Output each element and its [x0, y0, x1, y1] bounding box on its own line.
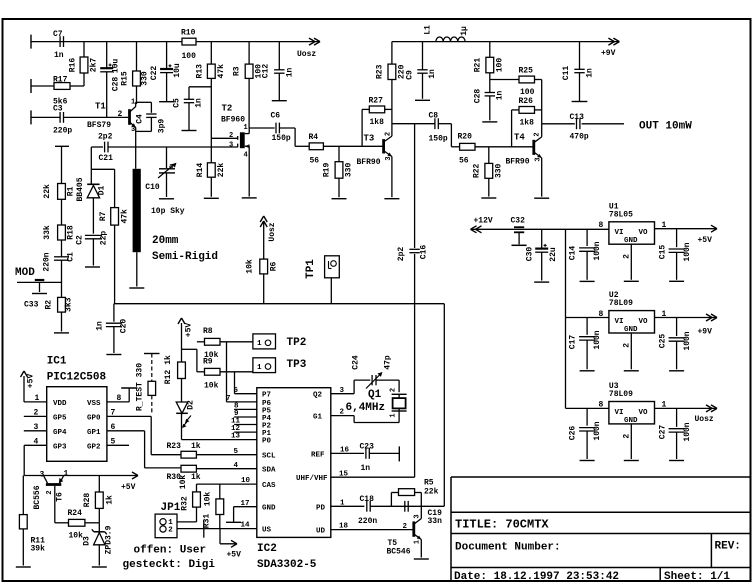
capacitor C15 — [669, 249, 685, 252]
svg-text:T3: T3 — [364, 134, 375, 144]
svg-text:MOD: MOD — [15, 267, 35, 279]
svg-text:100n: 100n — [593, 421, 602, 440]
wire C17 to ground — [586, 340, 588, 369]
ground T2 source — [242, 197, 257, 199]
wire C10 to ground — [136, 252, 138, 286]
capacitor C5 — [184, 99, 194, 102]
ground R2 — [54, 332, 69, 334]
svg-text:2: 2 — [118, 110, 123, 119]
wire IC1 pin1 — [24, 401, 47, 403]
wire R30 to SDA — [196, 468, 256, 470]
svg-text:22p: 22p — [100, 231, 109, 246]
wire R27 left — [362, 109, 369, 146]
svg-text:VSS: VSS — [87, 400, 101, 408]
svg-text:100n: 100n — [683, 242, 692, 261]
svg-text:10u: 10u — [173, 63, 182, 78]
svg-text:3p9: 3p9 — [158, 119, 167, 134]
svg-text:5: 5 — [234, 448, 239, 456]
svg-text:47k: 47k — [121, 209, 130, 224]
svg-text:VO: VO — [639, 409, 649, 417]
svg-text:R31: R31 — [203, 514, 212, 529]
ground U1 — [624, 280, 639, 282]
wire C26 drop — [586, 408, 588, 425]
ground T5 — [414, 558, 429, 560]
svg-text:1: 1 — [340, 499, 345, 507]
resistor R14 — [196, 163, 226, 178]
svg-text:D2: D2 — [187, 400, 196, 410]
svg-text:+5V: +5V — [121, 483, 136, 492]
svg-text:330: 330 — [495, 163, 504, 178]
wire R6 to Uosz arrow — [263, 221, 265, 259]
transistor T3 (BFR90) — [384, 136, 392, 156]
resistor R8 — [205, 338, 221, 345]
trimmer capacitor 10p Sky — [158, 163, 177, 178]
svg-text:10k: 10k — [179, 475, 188, 490]
wire MOD input — [17, 281, 62, 283]
resistor R7 — [99, 208, 130, 226]
svg-text:470p: 470p — [570, 133, 589, 142]
wire R13 down to T2 gate2/R14 — [210, 78, 212, 162]
wire C17 drop — [586, 318, 588, 335]
svg-text:8: 8 — [599, 221, 604, 230]
svg-text:3: 3 — [34, 423, 39, 432]
IC U3 (78L09 regulator) — [609, 402, 655, 425]
svg-text:1: 1 — [244, 124, 248, 132]
svg-text:IC1: IC1 — [47, 356, 67, 368]
wire C30 drop — [541, 229, 543, 248]
wire T4 collector up — [541, 124, 543, 137]
wire R21 to node — [489, 73, 491, 80]
svg-text:TP2: TP2 — [287, 337, 307, 349]
wire C20 to ground — [113, 327, 115, 353]
resistor R24 — [69, 519, 85, 526]
wire R22 to ground — [488, 178, 490, 196]
wire C25 to ground — [676, 341, 678, 369]
ground C5 — [182, 130, 197, 132]
svg-text:BF960: BF960 — [221, 116, 245, 125]
svg-text:R25: R25 — [519, 67, 534, 76]
wire R13 drop — [210, 42, 212, 65]
wire C11 drop — [579, 42, 581, 70]
wire R5 left — [391, 493, 398, 507]
svg-text:18: 18 — [339, 523, 349, 531]
ground C27 — [669, 460, 684, 462]
wire R9 to TP3 — [220, 371, 253, 373]
svg-text:+9V: +9V — [601, 49, 616, 58]
svg-text:6,4MHz: 6,4MHz — [346, 402, 386, 414]
wire R20 to T4 base — [475, 146, 533, 148]
svg-text:C18: C18 — [360, 495, 375, 504]
svg-text:R6: R6 — [270, 262, 279, 272]
svg-text:10u: 10u — [112, 59, 121, 74]
wire R11 top — [22, 476, 24, 515]
capacitor C1 — [54, 257, 69, 260]
wire C4 loop bottom — [136, 117, 152, 131]
title block — [451, 477, 750, 581]
svg-text:VO: VO — [639, 229, 649, 237]
wire IC2 P2 stub — [234, 424, 257, 426]
svg-text:GND: GND — [624, 237, 638, 245]
ground C12 — [272, 100, 287, 102]
svg-text:1k8: 1k8 — [370, 118, 385, 127]
svg-text:GP3: GP3 — [53, 444, 67, 452]
svg-text:10k: 10k — [204, 382, 219, 391]
wire C11 down — [579, 73, 581, 102]
wire C15 drop — [676, 229, 678, 248]
resistor R28 — [95, 492, 103, 508]
svg-text:L1: L1 — [424, 25, 433, 35]
wire R9 node to IC2 P7 — [235, 372, 257, 394]
wire R6 bottom — [263, 274, 265, 304]
svg-text:10: 10 — [241, 477, 251, 485]
transistor T4 (BFR90) — [534, 137, 542, 158]
svg-text:C8: C8 — [429, 112, 439, 121]
svg-text:56: 56 — [310, 157, 320, 166]
capacitor C10 (semi-rigid stub) — [133, 169, 141, 252]
svg-text:56: 56 — [459, 157, 469, 166]
wire T5 emitter to ground — [420, 540, 422, 558]
svg-text:1n: 1n — [361, 464, 371, 473]
svg-text:R10: R10 — [181, 29, 196, 38]
svg-text:PD: PD — [316, 504, 326, 512]
wire C16 to UHF/VHF pin — [414, 254, 416, 477]
svg-text:3k3: 3k3 — [65, 297, 74, 312]
ground C30 — [534, 281, 549, 283]
wire R3 drop — [248, 42, 250, 65]
ground R22 — [481, 197, 496, 199]
svg-text:100n: 100n — [593, 241, 602, 260]
power arrow +9V (U2) — [706, 314, 717, 321]
capacitor C9 — [417, 70, 427, 73]
resistor R9 — [205, 368, 221, 375]
svg-text:JP1: JP1 — [161, 502, 181, 514]
connector stub C3 input — [30, 110, 32, 124]
svg-text:C21: C21 — [99, 154, 114, 163]
svg-text:+5V: +5V — [185, 323, 194, 338]
capacitor C28 (1n) — [485, 93, 495, 96]
capacitor C4 — [146, 114, 156, 117]
wire C14 drop — [586, 229, 588, 246]
svg-text:T1: T1 — [95, 102, 106, 112]
wire top-right rail — [392, 41, 619, 43]
wire C21 row — [91, 146, 103, 148]
IC U1 (78L05 regulator) — [609, 222, 655, 245]
svg-text:8: 8 — [599, 401, 604, 410]
svg-text:US: US — [262, 527, 272, 535]
ground IC2 — [226, 521, 241, 523]
svg-text:2p2: 2p2 — [397, 247, 406, 262]
resistor R6 — [246, 259, 279, 274]
svg-text:P0: P0 — [262, 438, 272, 446]
capacitor C30 (22u) — [535, 244, 548, 252]
wire R8 node to IC2 P6 — [227, 342, 257, 402]
resistor R32 — [193, 492, 201, 507]
svg-text:+5V: +5V — [27, 374, 36, 389]
wire T1 collector to C4 loop — [136, 102, 152, 113]
svg-text:6: 6 — [234, 387, 239, 395]
svg-text:IC2: IC2 — [257, 543, 277, 555]
svg-text:G1: G1 — [313, 414, 323, 422]
ground C28b — [482, 121, 497, 123]
wire R22 top — [488, 147, 490, 164]
IC U2 (78L09 regulator) — [609, 311, 655, 334]
svg-text:R18: R18 — [67, 225, 76, 240]
wire T6 collector to R24 — [55, 522, 69, 524]
wire C5 to ground — [188, 103, 190, 131]
svg-text:+9V: +9V — [698, 328, 713, 337]
svg-text:10k: 10k — [69, 532, 84, 541]
wire R1 top — [61, 146, 63, 183]
svg-text:PIC12C508: PIC12C508 — [47, 372, 107, 384]
open stub pin8 — [121, 387, 137, 389]
svg-text:Uosz: Uosz — [695, 415, 714, 424]
svg-text:R13: R13 — [196, 64, 205, 79]
wire C21 to T1 emitter and T2 gate3 — [108, 146, 238, 148]
svg-text:T2: T2 — [222, 104, 233, 114]
wire C30 to ground — [541, 252, 543, 280]
wire R17 input stub — [31, 85, 54, 87]
svg-text:7: 7 — [226, 395, 231, 403]
svg-text:100: 100 — [182, 52, 197, 61]
resistor R31 — [216, 499, 224, 515]
svg-text:22k: 22k — [43, 184, 52, 199]
svg-text:SDA3302-5: SDA3302-5 — [257, 559, 317, 571]
svg-text:2: 2 — [168, 527, 173, 535]
svg-text:C6: C6 — [271, 112, 281, 121]
wire C28b to ground — [489, 96, 491, 121]
svg-text:C1: C1 — [67, 252, 76, 262]
svg-text:20mm: 20mm — [152, 235, 179, 247]
power arrow +12V input — [471, 226, 482, 233]
svg-text:GP2: GP2 — [87, 444, 101, 452]
svg-text:2: 2 — [622, 343, 631, 348]
wire C14 to ground — [586, 251, 588, 279]
resistor R4 — [309, 143, 323, 150]
svg-text:6: 6 — [111, 423, 116, 432]
wire U2 GND to ground — [630, 333, 632, 369]
wire R31 bottom — [219, 515, 221, 529]
resistor R_TEST 330 — [148, 354, 156, 415]
capacitor C14 — [579, 248, 595, 251]
wire C8 to R20 — [438, 124, 459, 147]
svg-text:78L05: 78L05 — [609, 210, 633, 219]
svg-text:Q2: Q2 — [313, 392, 323, 400]
svg-text:2k7: 2k7 — [90, 58, 99, 73]
svg-text:3: 3 — [340, 387, 345, 395]
wire C12 drop — [278, 42, 280, 70]
svg-text:UD: UD — [316, 528, 326, 536]
svg-text:R32: R32 — [181, 496, 190, 511]
ground C17 — [580, 370, 595, 372]
ground C25 — [669, 370, 684, 372]
svg-text:220n: 220n — [43, 252, 52, 271]
capacitor C19 — [405, 501, 408, 512]
power arrow Uosz out (top) — [309, 38, 320, 45]
svg-text:100n: 100n — [683, 422, 692, 441]
wire C2 to ground — [92, 239, 94, 266]
power arrow +5V (T6) — [132, 472, 138, 479]
wire Q2 to crystal loop — [331, 380, 371, 394]
wire C1 to MOD node — [61, 260, 63, 297]
svg-text:Document Number:: Document Number: — [455, 542, 561, 554]
wire crystal to G1 — [331, 411, 399, 423]
resistor R21 — [474, 57, 505, 73]
ground C22 — [159, 101, 174, 103]
wire R7 top — [114, 169, 116, 207]
svg-text:Q1: Q1 — [368, 389, 382, 401]
power arrow +5V (IC2) — [220, 529, 237, 548]
wire R16 to R17 node — [83, 73, 85, 86]
wire R4 to T3 base — [323, 145, 382, 147]
wire T2 gate2 — [211, 137, 237, 139]
power arrow +5V (IC1) — [21, 371, 28, 377]
resistor R22 — [473, 163, 504, 178]
wire IC1 pin7 GP0 — [107, 416, 181, 454]
wire PD to C18 — [331, 505, 365, 507]
svg-text:C10: C10 — [145, 183, 160, 192]
svg-text:SDA: SDA — [262, 467, 276, 475]
ground C15 — [669, 280, 684, 282]
connector stub R17 input — [30, 79, 32, 93]
svg-text:VI: VI — [615, 318, 624, 326]
svg-text:1n: 1n — [96, 321, 105, 331]
svg-text:39k: 39k — [31, 545, 46, 554]
svg-text:1k8: 1k8 — [520, 118, 535, 127]
wire R28 bottom — [98, 508, 100, 522]
wire R11 to ground — [22, 529, 24, 566]
ground R14 — [204, 197, 219, 199]
wire trimmer drop — [166, 147, 168, 168]
svg-text:2: 2 — [34, 409, 39, 418]
svg-text:1k: 1k — [191, 473, 201, 482]
wire R25 right down — [535, 80, 542, 124]
svg-text:1μ: 1μ — [460, 26, 469, 36]
svg-text:14: 14 — [241, 522, 251, 530]
LED D2 — [176, 402, 191, 428]
resistor R1 — [43, 184, 76, 200]
wire tune bus — [114, 303, 444, 305]
svg-text:2: 2 — [46, 490, 54, 494]
svg-text:C25: C25 — [659, 334, 668, 349]
connector MOD — [32, 280, 47, 294]
ground C2 — [85, 266, 100, 268]
svg-text:+5V: +5V — [698, 236, 713, 245]
svg-text:1k: 1k — [106, 495, 115, 505]
svg-text:150p: 150p — [272, 134, 291, 143]
wire C9 drop — [422, 42, 424, 70]
svg-text:VI: VI — [615, 409, 624, 417]
svg-text:1n: 1n — [586, 68, 595, 78]
wire IC1 pin4 to T6 row — [24, 475, 137, 477]
wire RF tap down (C16 column) — [414, 124, 416, 248]
power arrow Uosz (R6) — [260, 216, 267, 227]
svg-text:R28: R28 — [83, 493, 92, 508]
svg-text:47p: 47p — [384, 355, 393, 370]
svg-text:Uosz: Uosz — [297, 50, 316, 59]
wire IC2 P5 stub — [234, 408, 257, 410]
ground U2 — [624, 370, 639, 372]
svg-text:GP4: GP4 — [53, 429, 67, 437]
svg-text:3: 3 — [40, 471, 45, 480]
svg-text:R8: R8 — [203, 327, 213, 336]
diode D1 (BB405 varactor) — [87, 184, 99, 198]
resistor R3 — [233, 64, 264, 79]
svg-text:R19: R19 — [323, 163, 332, 178]
power arrow +9V (top) — [608, 38, 619, 45]
capacitor C32 — [512, 227, 527, 245]
svg-text:1: 1 — [257, 340, 262, 348]
svg-text:220p: 220p — [53, 127, 72, 136]
wire R32 top — [196, 484, 198, 492]
ground C20 — [106, 354, 121, 356]
svg-text:C33: C33 — [24, 301, 39, 310]
wire T2 drain to C6 — [249, 127, 275, 129]
wire R24 to D3 node — [85, 522, 99, 524]
resistor R17 — [54, 83, 70, 90]
wire R17 to R16 node — [70, 85, 84, 87]
wire C23 right — [369, 452, 399, 454]
resistor R13 — [196, 64, 227, 79]
svg-text:5: 5 — [111, 438, 116, 447]
wire C28 to T1 base — [106, 72, 108, 118]
wire C21 left to D1 — [90, 147, 92, 169]
svg-text:C28: C28 — [112, 77, 121, 92]
resistor R15 — [121, 71, 150, 86]
svg-text:1k: 1k — [191, 442, 201, 451]
wire C5 branch — [189, 87, 211, 100]
capacitor C13 — [577, 118, 580, 129]
svg-text:R3: R3 — [233, 66, 242, 76]
wire U3 output — [655, 407, 717, 409]
power arrow +5V (U1) — [711, 225, 717, 232]
svg-text:R12: R12 — [164, 370, 173, 385]
svg-text:VI: VI — [615, 229, 624, 237]
wire D1 top — [90, 169, 92, 183]
ground R11 — [16, 566, 31, 568]
svg-text:TP3: TP3 — [287, 359, 307, 371]
test point TP1 — [325, 256, 340, 278]
wire IC1 pin5 stub — [107, 444, 129, 446]
svg-text:GND: GND — [624, 417, 638, 425]
capacitor C11 — [574, 69, 584, 72]
wire T3 collector row to C8 — [392, 123, 435, 125]
jumper JP1 — [155, 514, 177, 538]
svg-text:150p: 150p — [429, 135, 448, 144]
svg-text:C20: C20 — [120, 319, 129, 334]
capacitor C21 — [105, 142, 108, 153]
svg-text:C16: C16 — [420, 245, 429, 260]
svg-text:R26: R26 — [519, 97, 534, 106]
ground D3 — [92, 566, 107, 568]
resistor R11 — [19, 515, 27, 529]
inductor L1 (1u) — [436, 37, 465, 42]
svg-text:1n: 1n — [286, 68, 295, 78]
svg-text:C11: C11 — [562, 66, 571, 81]
svg-text:4: 4 — [34, 438, 39, 447]
wire R3 down to T2 drain — [248, 78, 250, 128]
svg-text:C12: C12 — [262, 64, 271, 79]
svg-text:10k: 10k — [246, 259, 255, 274]
wire UHF/VHF — [331, 476, 415, 478]
svg-text:BB405: BB405 — [76, 177, 85, 201]
resistor R25 — [519, 76, 535, 83]
connector stub R1 top — [55, 145, 69, 147]
resistor R18 — [43, 225, 76, 240]
svg-text:10k: 10k — [204, 492, 213, 507]
svg-text:R1: R1 — [67, 186, 76, 196]
ground C26 — [580, 460, 595, 462]
wire C26 to ground — [586, 431, 588, 459]
